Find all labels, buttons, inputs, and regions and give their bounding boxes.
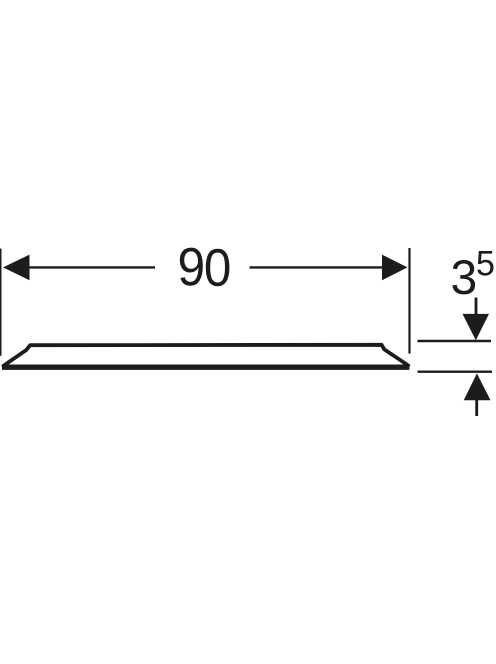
left extension line (0, 249, 2, 356)
down arrow stem (475, 298, 478, 319)
up arrowhead (464, 373, 491, 400)
upper witness line (3.5 dim) (418, 340, 492, 342)
digit 9 of 90 (180, 248, 203, 286)
shelf outline (cover plate profile) (3, 345, 408, 366)
superscript 5 (477, 251, 493, 276)
dimension text 3 (452, 260, 475, 294)
left arrowhead (3, 255, 30, 281)
lower witness line (3.5 dim) (418, 371, 493, 373)
right arrowhead (382, 255, 408, 281)
shelf bottom edge (2, 365, 409, 370)
digit 0 of 90 (206, 249, 230, 286)
up arrow stem (475, 400, 478, 416)
right extension line (408, 248, 410, 354)
down arrowhead (463, 314, 490, 340)
dimension line left segment (8, 266, 155, 268)
dimension line right segment (250, 266, 406, 268)
